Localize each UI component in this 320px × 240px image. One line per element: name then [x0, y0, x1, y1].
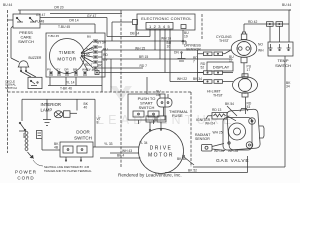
wire OR 14	[50, 13, 122, 15]
wires from connectors right	[225, 50, 234, 82]
wire hi-limit down to valve	[245, 97, 247, 114]
svg-text:WH 15: WH 15	[135, 46, 145, 50]
svg-text:BK 4: BK 4	[117, 154, 124, 158]
wire WH 15	[102, 49, 231, 51]
svg-text:T-BK 46: T-BK 46	[60, 87, 72, 91]
wire: plug to door switch	[42, 139, 60, 150]
lamp circuit wire	[22, 99, 95, 147]
wire RD 7	[102, 67, 143, 69]
node: top-left label BU 44	[3, 3, 12, 7]
svg-text:45: 45	[86, 53, 90, 57]
node BU 17	[229, 55, 234, 63]
svg-text:34: 34	[286, 85, 290, 89]
svg-text:10: 10	[156, 93, 160, 97]
wire GY 47	[40, 18, 150, 37]
svg-text:SWITCH: SWITCH	[18, 39, 34, 44]
node: top-right label BU 44	[282, 3, 291, 7]
wire: right BU 44 drop	[289, 10, 291, 42]
svg-text:T-BU 45: T-BU 45	[58, 25, 70, 29]
svg-text:40: 40	[84, 105, 88, 109]
wire BK 52 from motor to valve	[165, 156, 248, 173]
cycling thermostat	[216, 35, 232, 43]
svg-text:7: 7	[193, 60, 195, 64]
svg-text:GY: GY	[103, 58, 109, 62]
svg-text:LAMP: LAMP	[41, 107, 53, 112]
svg-text:17: 17	[229, 59, 233, 63]
cabinet border left	[7, 10, 9, 153]
svg-text:YL 14: YL 14	[66, 81, 75, 85]
svg-text:INTERIOR: INTERIOR	[41, 102, 62, 107]
svg-text:GY 44: GY 44	[86, 68, 95, 72]
svg-text:RD 13: RD 13	[212, 108, 222, 112]
svg-text:SWITCH: SWITCH	[74, 136, 92, 141]
svg-text:PU: PU	[47, 68, 51, 72]
connector pair 1	[204, 52, 213, 56]
console divider near control	[201, 14, 203, 40]
svg-text:53: 53	[247, 105, 251, 109]
power cord plug	[37, 131, 43, 139]
thermal fuse	[157, 98, 172, 107]
wire from control right	[182, 30, 184, 40]
svg-text:MOTOR: MOTOR	[148, 153, 174, 159]
svg-text:TH'ST: TH'ST	[213, 94, 224, 98]
svg-text:TIMER: TIMER	[59, 50, 76, 55]
svg-text:CORD: CORD	[17, 175, 34, 180]
svg-text:GAS VALVE: GAS VALVE	[216, 158, 249, 164]
svg-text:BK 5A: BK 5A	[177, 157, 187, 161]
svg-text:GY 47: GY 47	[36, 13, 45, 17]
svg-text:RD 7: RD 7	[140, 64, 148, 68]
svg-text:GY 50: GY 50	[97, 41, 106, 45]
wire control tab left	[112, 22, 132, 41]
svg-text:BU 44: BU 44	[3, 3, 12, 7]
wire DB 14 drop	[135, 25, 137, 37]
wire cycling bottom to hi-limit	[243, 63, 245, 77]
svg-text:OR 14: OR 14	[69, 18, 79, 22]
svg-text:19: 19	[184, 35, 188, 39]
svg-text:DN: DN	[174, 51, 179, 55]
gas valve assembly	[227, 109, 261, 150]
door switch bottom pins	[66, 157, 81, 160]
motor left wires	[93, 146, 139, 148]
electronic control	[137, 14, 195, 30]
svg-text:T-BU 45: T-BU 45	[48, 34, 59, 38]
wire buzzer down	[21, 72, 36, 78]
svg-text:DISPLAY: DISPLAY	[213, 65, 230, 70]
svg-text:RD 42: RD 42	[248, 20, 258, 24]
svg-text:POWER: POWER	[15, 170, 37, 175]
buzzer	[18, 61, 29, 67]
wire GY 50	[102, 41, 186, 44]
lamp ground	[43, 99, 51, 125]
wire thermal fuse down	[163, 107, 165, 116]
caption	[118, 173, 182, 178]
display	[207, 62, 233, 71]
hi-limit thermostat	[233, 77, 258, 93]
svg-text:DRIVE: DRIVE	[150, 146, 173, 152]
svg-text:TH'ST: TH'ST	[219, 39, 230, 43]
wire: BK 34 right vertical	[284, 56, 286, 167]
svg-text:YL 33: YL 33	[104, 142, 113, 146]
wire: press top to BU44	[19, 10, 21, 14]
cycle signal switch	[28, 77, 42, 88]
svg-text:12345: 12345	[149, 24, 172, 29]
svg-text:SENSOR: SENSOR	[195, 137, 210, 141]
svg-text:BR 15: BR 15	[139, 55, 148, 59]
timer box	[46, 33, 105, 77]
svg-text:10: 10	[167, 45, 171, 49]
node: label BK 4B	[54, 142, 59, 150]
timer terminal wire labels	[85, 48, 109, 73]
wire cycling top RD 42	[244, 24, 289, 32]
console divider horizontal	[8, 91, 192, 93]
press care switch	[13, 14, 40, 28]
wire BR 15	[102, 58, 232, 60]
push to start switch	[128, 94, 165, 120]
motor right terminal	[183, 155, 185, 157]
svg-text:52: 52	[201, 66, 205, 70]
svg-text:SWITCH: SWITCH	[275, 63, 291, 68]
svg-text:BU: BU	[103, 48, 108, 52]
node: label T-BU 45	[58, 25, 70, 29]
svg-text:PU 48: PU 48	[35, 20, 44, 24]
wire row 6	[99, 72, 203, 74]
door lamp switch	[22, 99, 24, 138]
watermark LEADVENTURE	[97, 86, 236, 127]
svg-text:GY: GY	[56, 68, 60, 72]
door switch	[74, 130, 92, 141]
node NO	[258, 43, 264, 53]
svg-text:SWITCH: SWITCH	[5, 86, 17, 90]
svg-text:DB 14: DB 14	[130, 32, 139, 36]
wire pairs column	[198, 50, 202, 82]
control drop wires	[150, 29, 170, 82]
svg-text:MOTOR: MOTOR	[57, 57, 76, 62]
svg-text:WH 22: WH 22	[177, 77, 187, 81]
svg-text:WH 16: WH 16	[161, 37, 171, 41]
svg-text:BK 52: BK 52	[188, 169, 197, 173]
node label WH 16	[161, 37, 171, 41]
dryness sensor	[184, 44, 202, 52]
svg-text:YL 34: YL 34	[139, 141, 148, 145]
timer motor	[50, 39, 85, 74]
svg-text:BR: BR	[97, 64, 102, 68]
svg-text:BUZZER: BUZZER	[29, 56, 42, 60]
small component at 97,72	[95, 71, 99, 75]
svg-text:RD 7: RD 7	[85, 63, 93, 67]
console divider vertical	[120, 10, 122, 168]
connector pair 2	[204, 71, 213, 75]
svg-text:T-OR: T-OR	[86, 48, 94, 52]
svg-text:ELECTRONIC CONTROL: ELECTRONIC CONTROL	[141, 16, 192, 21]
wire: timer bottom bus	[48, 77, 102, 86]
svg-text:DOOR: DOOR	[76, 130, 90, 135]
interior lamp	[41, 102, 62, 113]
svg-text:NEUTRAL LINE IDENTIFIED BY .04: NEUTRAL LINE IDENTIFIED BY .045	[44, 165, 90, 169]
svg-text:OR 20: OR 20	[54, 6, 64, 10]
neutral note	[33, 160, 43, 166]
svg-text:WH 24: WH 24	[205, 122, 215, 126]
power cord	[25, 131, 28, 151]
wire WH 22	[170, 81, 203, 83]
cabinet border bottom-right	[193, 166, 285, 168]
timer bottom terminals	[50, 71, 86, 76]
temp switch	[268, 42, 293, 56]
svg-text:SENSOR: SENSOR	[186, 48, 201, 52]
svg-text:RD: RD	[103, 53, 108, 57]
svg-text:WH 26: WH 26	[214, 149, 224, 153]
svg-text:BK 54: BK 54	[225, 102, 234, 106]
svg-text:GY 47: GY 47	[87, 14, 96, 18]
motor top connectors	[146, 116, 155, 122]
drive motor	[139, 129, 184, 174]
timer right terminals	[93, 40, 102, 69]
top wire BU 44	[18, 9, 291, 11]
svg-text:Rendered by LeadVenture, Inc.: Rendered by LeadVenture, Inc.	[118, 173, 182, 178]
sensor plates	[178, 54, 186, 62]
timer fan wires	[80, 41, 93, 71]
svg-text:17: 17	[247, 68, 251, 72]
svg-text:WH: WH	[258, 49, 264, 53]
svg-text:BU: BU	[87, 35, 91, 39]
node: label OR 14	[69, 18, 79, 22]
radiant sensor	[195, 133, 211, 141]
svg-text:BU 44: BU 44	[282, 3, 291, 7]
connector pair 3	[204, 80, 213, 84]
wire: press box to buzzer	[11, 26, 13, 58]
console divider vertical right	[190, 92, 192, 167]
node: label OR 20	[54, 6, 64, 10]
svg-text:8: 8	[97, 121, 99, 125]
wire vertical drops from timer	[102, 50, 111, 92]
igniter	[212, 108, 222, 112]
connector rects on RD42 wire	[267, 22, 274, 27]
svg-text:FUSE: FUSE	[172, 113, 183, 118]
svg-text:NO: NO	[258, 43, 263, 47]
wire: press switch stub to border	[8, 19, 14, 21]
svg-text:TRACER AND TIN PLATED TERMINAL: TRACER AND TIN PLATED TERMINAL	[44, 169, 92, 173]
wire PU 48	[40, 24, 95, 33]
timer small labels	[47, 34, 91, 72]
svg-text:WH 43: WH 43	[122, 149, 132, 153]
svg-text:WH 25: WH 25	[213, 131, 223, 135]
svg-text:SWITCH: SWITCH	[139, 105, 155, 110]
wire buzzer left to border wire	[11, 58, 19, 62]
